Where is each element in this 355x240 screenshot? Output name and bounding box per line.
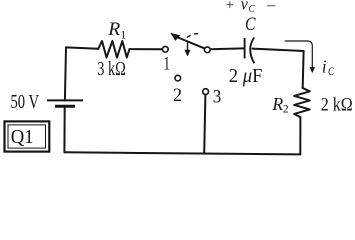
- svg-text:2: 2: [283, 104, 289, 116]
- figure tag box inner: [8, 125, 46, 148]
- svg-text:R: R: [107, 20, 120, 40]
- resistor R2: [294, 88, 310, 117]
- node 2 contact: [175, 75, 181, 81]
- current arrow iC hook: [285, 41, 313, 69]
- capacitor C curved plate: [250, 38, 254, 64]
- wire top-left horizontal: [66, 47, 98, 48]
- svg-text:3 kΩ: 3 kΩ: [97, 59, 126, 80]
- svg-text:C: C: [245, 14, 256, 35]
- wire node 3 down to bottom: [204, 95, 205, 154]
- figure tag box outer: [5, 121, 50, 151]
- wire capacitor to top-right corner: [253, 49, 304, 51]
- switch pivot contact: [204, 47, 210, 53]
- wire left vertical upper: [65, 47, 66, 100]
- capacitor C straight plate: [244, 38, 246, 58]
- svg-text:3: 3: [213, 86, 222, 107]
- svg-text:1: 1: [164, 54, 171, 75]
- svg-text:C: C: [328, 66, 334, 78]
- battery V1 long plate: [47, 99, 83, 101]
- svg-text:2 μF: 2 μF: [229, 66, 263, 87]
- svg-text:1: 1: [120, 28, 126, 42]
- resistor R1: [98, 41, 129, 58]
- battery V1 short plate: [55, 105, 75, 108]
- wire left vertical lower: [63, 106, 65, 152]
- node 3 contact: [203, 89, 209, 95]
- svg-text:Q1: Q1: [11, 126, 34, 148]
- switch blade with arrowhead: [171, 33, 205, 48]
- svg-text:2 kΩ: 2 kΩ: [321, 96, 353, 116]
- svg-text:R: R: [271, 94, 283, 114]
- svg-text:C: C: [249, 4, 256, 15]
- wire right vertical upper: [302, 51, 305, 88]
- switch motion dashed arc: [187, 34, 200, 38]
- svg-text:–: –: [266, 0, 276, 13]
- wire pivot to capacitor: [210, 47, 243, 50]
- wire R1 to node 1: [130, 48, 163, 50]
- switch closing arrow (down): [185, 43, 190, 57]
- wire right vertical lower: [299, 117, 301, 154]
- svg-text:+: +: [226, 0, 234, 13]
- wire bottom horizontal: [64, 152, 300, 154]
- svg-text:50 V: 50 V: [11, 92, 40, 113]
- svg-text:2: 2: [173, 85, 182, 106]
- svg-text:i: i: [322, 57, 327, 77]
- svg-text:v: v: [241, 0, 248, 14]
- node 1 contact: [162, 46, 168, 52]
